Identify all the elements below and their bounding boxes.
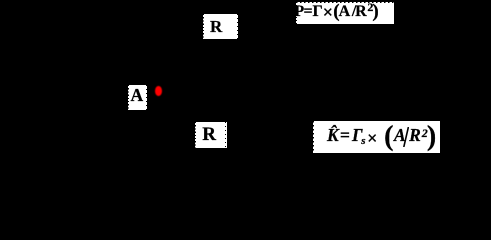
red point marker	[155, 86, 162, 96]
equation P = Gamma x (A/R^2)	[296, 2, 394, 24]
node A (aperture label box)	[128, 85, 147, 110]
node R (bottom range label box)	[195, 122, 227, 148]
node R (top range label box)	[203, 14, 238, 39]
equation K-hat = Gamma_s x (A/R^2)	[313, 121, 440, 153]
